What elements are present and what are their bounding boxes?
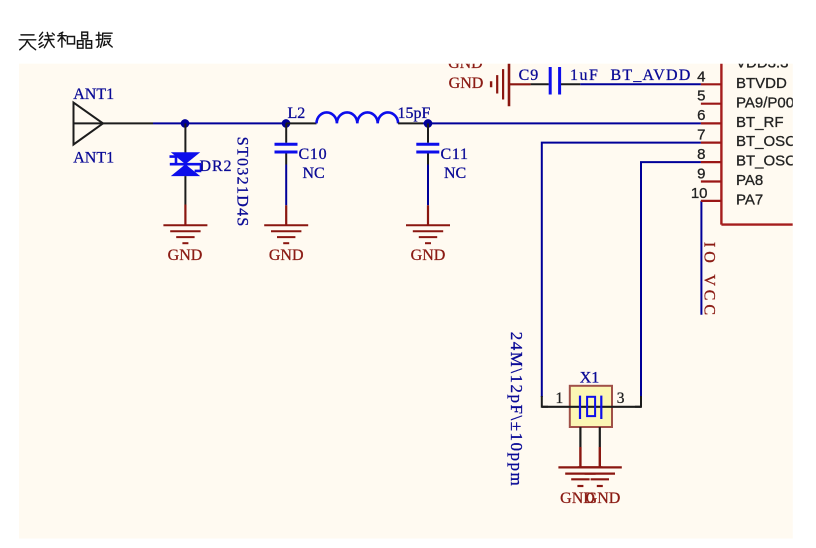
ground (DR2) bbox=[163, 205, 207, 244]
svg-text:C9: C9 bbox=[519, 67, 540, 84]
svg-text:ANT1: ANT1 bbox=[73, 150, 114, 167]
svg-text:GND: GND bbox=[586, 490, 621, 507]
wire X1 pin1 to ground bbox=[579, 427, 581, 447]
svg-text:VDD3.3: VDD3.3 bbox=[736, 54, 789, 71]
pin 9 PA8 bbox=[697, 166, 763, 190]
svg-text:GND: GND bbox=[168, 247, 203, 264]
svg-text:1: 1 bbox=[555, 390, 563, 407]
wire (blue) C10 to ground bbox=[285, 165, 287, 206]
svg-text:9: 9 bbox=[697, 166, 705, 183]
ground (X1 pin3) bbox=[578, 447, 622, 486]
svg-text:X1: X1 bbox=[580, 370, 600, 387]
IC outline U1 bbox=[721, 62, 792, 225]
svg-text:6: 6 bbox=[697, 107, 705, 124]
svg-text:BTVDD: BTVDD bbox=[736, 75, 787, 92]
svg-text:GND: GND bbox=[411, 247, 446, 264]
svg-text:ST0321D4S: ST0321D4S bbox=[233, 137, 250, 228]
svg-text:PA8: PA8 bbox=[736, 172, 763, 189]
svg-text:BT_OSCI: BT_OSCI bbox=[736, 153, 800, 170]
wire BT_OSC2 net pin8 bbox=[641, 162, 701, 397]
svg-text:5: 5 bbox=[697, 88, 705, 105]
inductor L2 bbox=[286, 112, 423, 123]
svg-text:4: 4 bbox=[697, 68, 705, 85]
wire BT_OSC1 net pin7 bbox=[542, 143, 701, 397]
pin 8 BT_OSC bbox=[697, 146, 800, 170]
svg-text:10: 10 bbox=[691, 185, 708, 202]
node junction B bbox=[282, 119, 291, 128]
pin 10 PA7 bbox=[691, 185, 763, 209]
sheet title 天线和晶振 bbox=[19, 32, 112, 50]
capacitor C10 bbox=[275, 123, 298, 164]
svg-text:BT_OSCO: BT_OSCO bbox=[736, 133, 808, 150]
wire net (blue) to junction bbox=[153, 122, 286, 124]
svg-text:1uF: 1uF bbox=[570, 67, 599, 84]
wire BT_AVDD net (blue) bbox=[580, 83, 701, 85]
svg-text:GND: GND bbox=[269, 247, 304, 264]
pin 7 BT_OSC bbox=[697, 127, 808, 151]
wire BT_RF net (blue) bbox=[423, 122, 701, 124]
ground (C10) bbox=[264, 205, 308, 243]
wire (blue) C11 to ground bbox=[427, 165, 429, 206]
crystal X1 bbox=[542, 386, 641, 427]
svg-text:24M\12pF\±10ppm: 24M\12pF\±10ppm bbox=[507, 332, 526, 488]
svg-text:GND: GND bbox=[448, 55, 483, 72]
wire IO_VCC net pin10 bbox=[700, 201, 702, 315]
svg-text:BT_RF: BT_RF bbox=[736, 114, 784, 131]
ground (C11) bbox=[406, 205, 450, 243]
pin 4 BTVDD bbox=[697, 68, 787, 92]
ground (X1 pin1) bbox=[558, 447, 602, 486]
svg-text:L2: L2 bbox=[288, 105, 306, 122]
svg-text:NC: NC bbox=[303, 165, 325, 182]
svg-text:C11: C11 bbox=[441, 146, 469, 163]
antenna ANT1 bbox=[74, 103, 104, 145]
TVS diode DR2 bbox=[170, 123, 202, 204]
pin 5 PA9/P00 bbox=[697, 88, 794, 112]
svg-text:ANT1: ANT1 bbox=[73, 86, 114, 103]
wire antenna pin (black) bbox=[103, 122, 153, 124]
svg-text:7: 7 bbox=[697, 127, 705, 144]
node junction C bbox=[424, 119, 433, 128]
svg-text:PA7: PA7 bbox=[736, 192, 763, 209]
svg-text:3: 3 bbox=[617, 390, 625, 407]
svg-text:PA9/P00: PA9/P00 bbox=[736, 94, 794, 111]
svg-text:8: 8 bbox=[697, 146, 705, 163]
capacitor C9 bbox=[531, 67, 581, 95]
node junction A bbox=[181, 119, 190, 128]
pin 6 BT_RF bbox=[697, 107, 783, 131]
capacitor C11 bbox=[416, 123, 439, 164]
svg-text:NC: NC bbox=[444, 165, 466, 182]
svg-text:GND: GND bbox=[449, 75, 484, 92]
svg-text:BT_AVDD: BT_AVDD bbox=[611, 67, 692, 84]
svg-text:DR2: DR2 bbox=[200, 158, 233, 175]
svg-text:C10: C10 bbox=[299, 146, 328, 163]
ground rotated (C9) bbox=[491, 62, 530, 106]
svg-text:15pF: 15pF bbox=[398, 105, 431, 122]
wire X1 pin3 to ground bbox=[599, 427, 601, 447]
svg-text:IO VCC: IO VCC bbox=[701, 242, 718, 319]
